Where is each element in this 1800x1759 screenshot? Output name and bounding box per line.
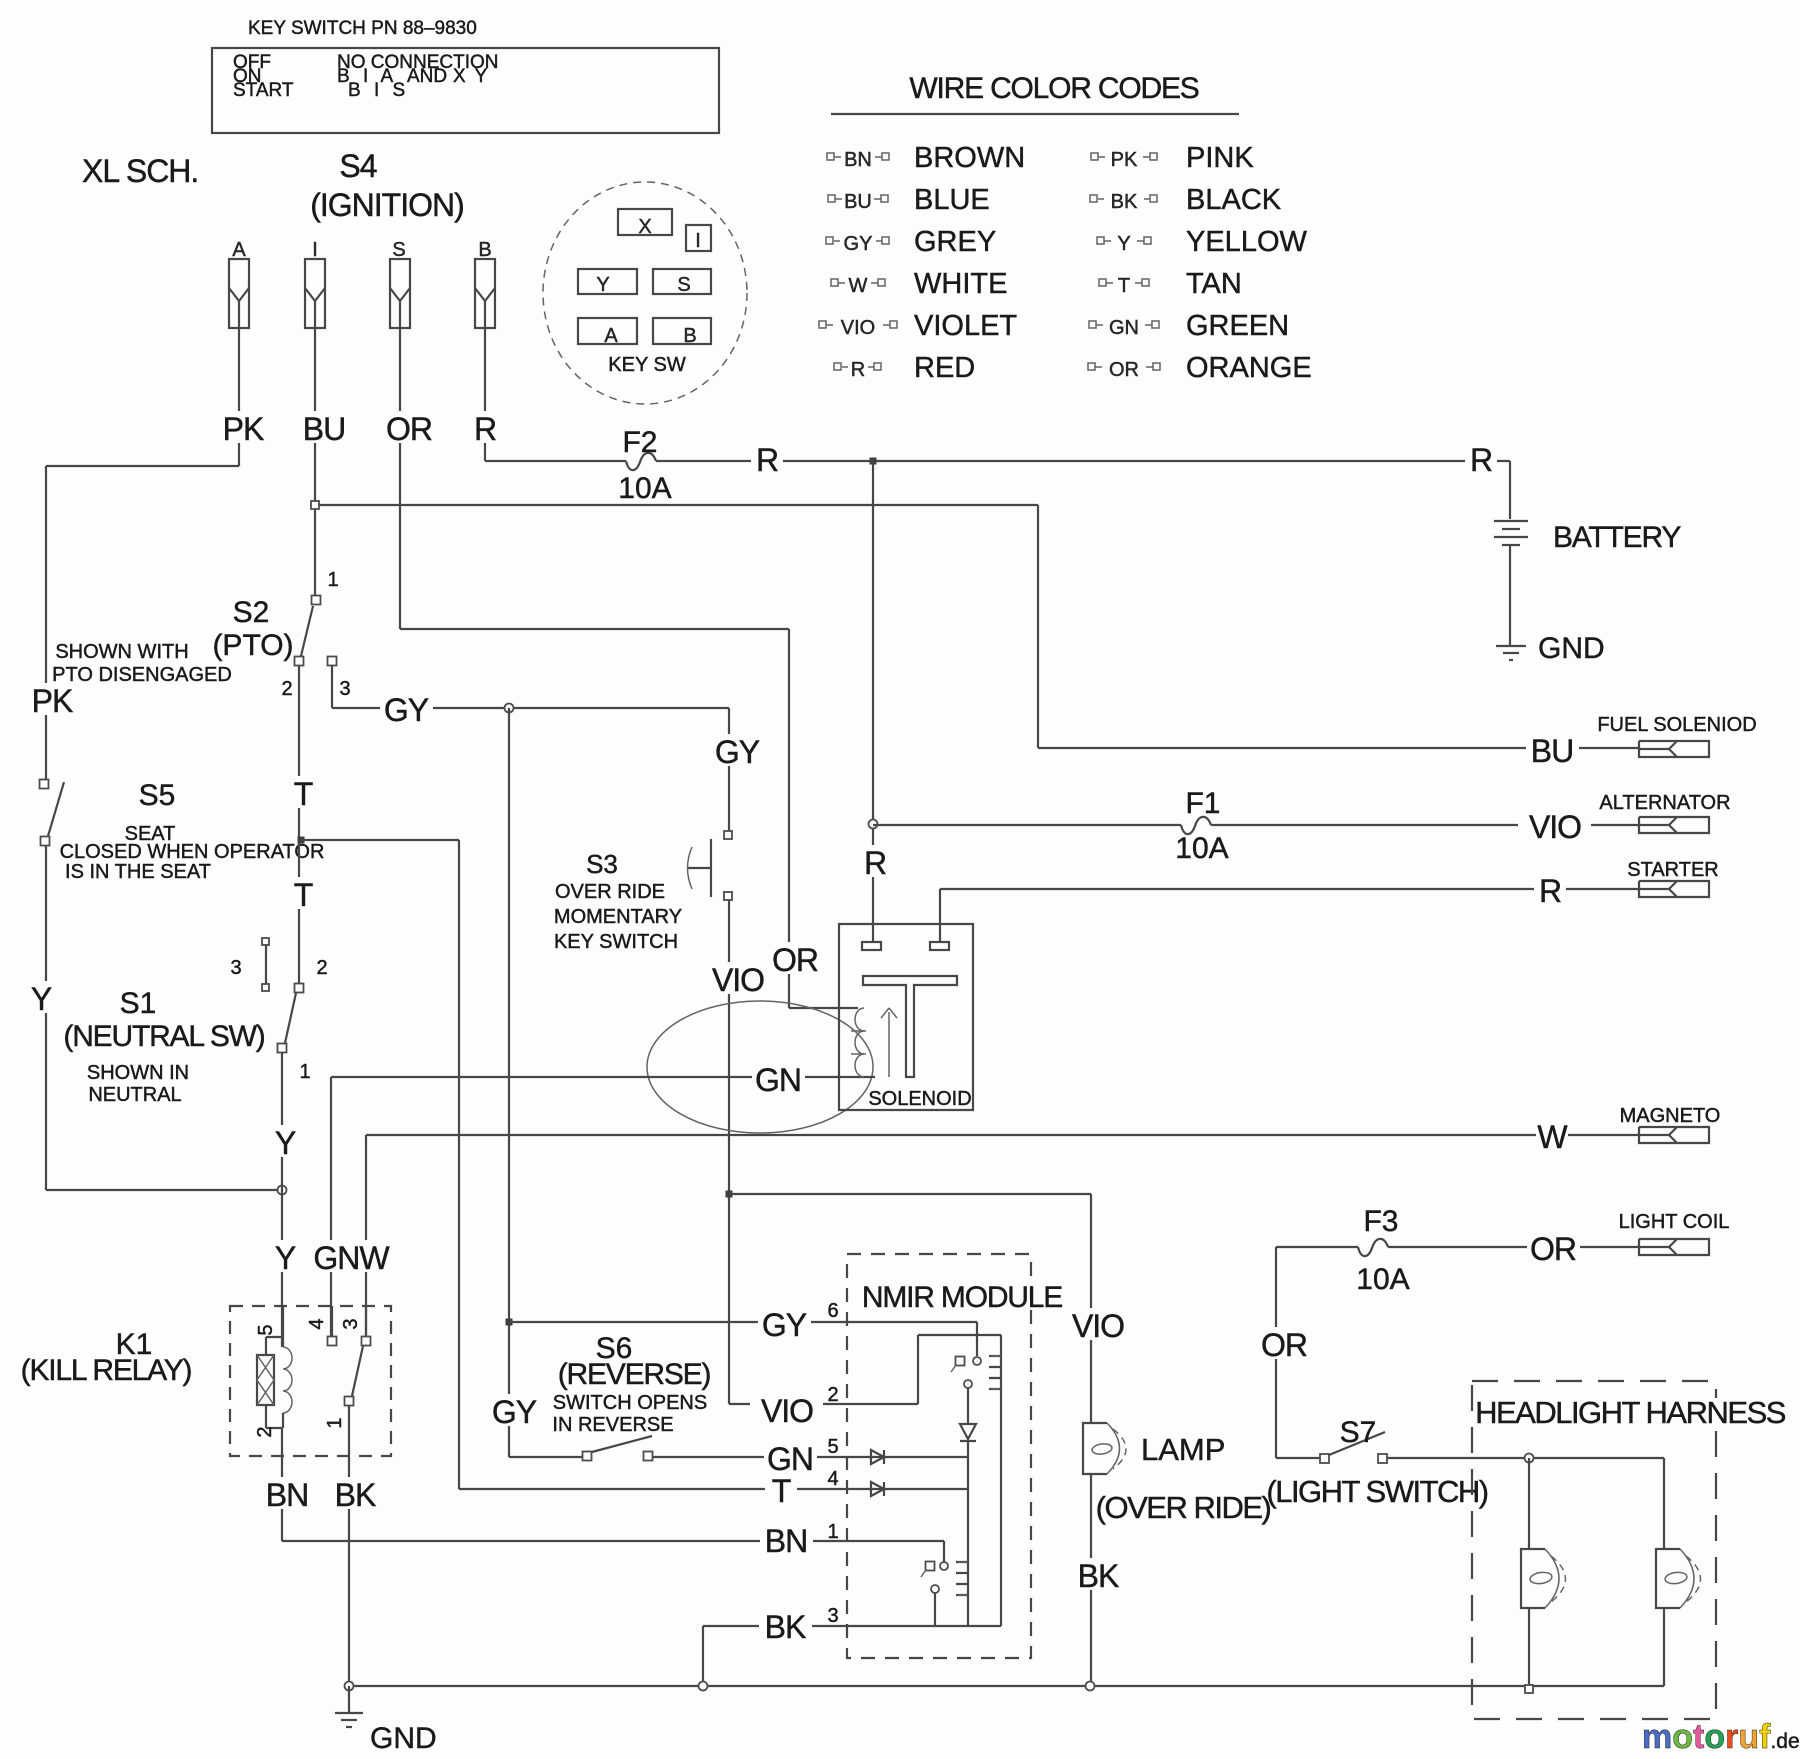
svg-text:ALTERNATOR: ALTERNATOR — [1599, 792, 1730, 814]
svg-text:BN: BN — [266, 1477, 308, 1513]
svg-text:1: 1 — [324, 1417, 346, 1428]
svg-text:VIOLET: VIOLET — [914, 310, 1017, 342]
svg-text:BK: BK — [1078, 1558, 1119, 1594]
key face terminal B — [653, 318, 711, 344]
svg-text:BU: BU — [1531, 733, 1573, 769]
wire R from S4 pin B to fuse F2 — [484, 328, 486, 461]
svg-text:F1: F1 — [1185, 787, 1220, 820]
svg-text:SHOWN WITH: SHOWN WITH — [55, 641, 188, 663]
key face terminal Y — [578, 269, 637, 294]
svg-text:4: 4 — [306, 1318, 328, 1329]
svg-text:OVER RIDE: OVER RIDE — [555, 881, 665, 903]
wire BK from K1 to ground bus — [348, 1406, 350, 1686]
color code T = TAN — [1099, 279, 1106, 286]
svg-text:VIO: VIO — [1529, 809, 1581, 845]
wire PK from S4 pin A — [238, 328, 240, 466]
svg-text:T: T — [294, 877, 313, 913]
color code W = WHITE — [831, 279, 838, 286]
svg-text:Y: Y — [1117, 233, 1130, 255]
key face terminal I — [686, 225, 711, 251]
svg-text:10A: 10A — [618, 472, 671, 505]
svg-text:STARTER: STARTER — [1627, 859, 1719, 881]
key face terminal A — [578, 318, 637, 344]
S4 connector I — [305, 259, 325, 328]
wire label Y (K1) — [269, 1240, 301, 1272]
svg-text:PTO DISENGAGED: PTO DISENGAGED — [52, 664, 232, 686]
switch S7 light switch — [1276, 1457, 1320, 1459]
svg-text:F3: F3 — [1363, 1205, 1398, 1238]
wire label BU (fuel solenoid) — [1526, 733, 1579, 765]
NMIR relay 2 contacts — [926, 1562, 935, 1571]
color code GY = GREY — [826, 237, 833, 244]
wire BU from S4 pin I — [314, 328, 316, 600]
svg-text:2: 2 — [827, 1384, 838, 1406]
wire T from S2 pin 2 down — [298, 666, 300, 983]
svg-text:OR: OR — [1530, 1231, 1576, 1267]
svg-text:PK: PK — [1111, 149, 1138, 171]
svg-text:2: 2 — [254, 1426, 276, 1437]
wire label BK (lamp) — [1072, 1558, 1125, 1590]
key face terminal S — [653, 269, 711, 294]
wire BK NMIR pin 3 to ground bus — [703, 1625, 1001, 1627]
svg-text:BN: BN — [844, 149, 872, 171]
svg-text:T: T — [1118, 275, 1130, 297]
switch S6 reverse switch — [509, 1456, 582, 1458]
wire label R (solenoid) — [859, 845, 891, 877]
wire S7 to headlight harness — [1387, 1457, 1664, 1459]
svg-text:W: W — [849, 275, 868, 297]
svg-text:R: R — [851, 359, 865, 381]
NMIR relay 2 coil — [956, 1562, 968, 1595]
wire label PK (left) — [26, 683, 79, 715]
key face terminal X — [618, 209, 672, 235]
svg-text:3: 3 — [339, 678, 350, 700]
wire label GY (S6) — [488, 1394, 541, 1426]
svg-text:S4: S4 — [339, 148, 376, 184]
svg-text:R: R — [756, 442, 778, 478]
svg-text:2: 2 — [281, 678, 292, 700]
wire GY to S6 — [508, 708, 510, 1457]
svg-text:W: W — [1537, 1119, 1568, 1155]
svg-text:BLACK: BLACK — [1186, 184, 1282, 216]
switch S5 seat switch — [40, 780, 49, 789]
svg-text:OR: OR — [1261, 1327, 1307, 1363]
NMIR relay 1 feed wire — [976, 1322, 978, 1356]
svg-text:GND: GND — [370, 1722, 437, 1755]
svg-text:GY: GY — [384, 692, 429, 728]
headlight lamp 1 — [1521, 1549, 1545, 1608]
wire GY from S2 pin 3 — [331, 666, 333, 708]
wire label PK (top) — [217, 411, 270, 443]
wire T branch to S6/NMIR pin 4 column — [301, 839, 459, 841]
svg-text:WIRE COLOR CODES: WIRE COLOR CODES — [909, 72, 1198, 105]
svg-text:I: I — [695, 230, 701, 252]
fuse F1 — [1181, 817, 1211, 834]
svg-text:R: R — [864, 845, 886, 881]
color code BK = BLACK — [1090, 195, 1097, 202]
wire label BK (K1) — [329, 1477, 382, 1509]
svg-text:Y: Y — [596, 274, 609, 296]
solenoid terminal 1 — [862, 942, 881, 950]
svg-text:BK: BK — [1111, 191, 1138, 213]
svg-text:VIO: VIO — [841, 317, 875, 339]
wire OR from S4 pin S — [399, 328, 401, 629]
svg-text:GND: GND — [1538, 632, 1605, 665]
wire label BK (NMIR) — [759, 1609, 812, 1641]
svg-text:KEY SW: KEY SW — [608, 354, 686, 376]
svg-text:KEY SWITCH: KEY SWITCH — [554, 931, 678, 953]
svg-text:(IGNITION): (IGNITION) — [310, 187, 464, 223]
wire label GY (NMIR) — [758, 1307, 811, 1339]
svg-text:HEADLIGHT HARNESS: HEADLIGHT HARNESS — [1475, 1395, 1786, 1430]
svg-text:1: 1 — [827, 1521, 838, 1543]
wire GNW to K1 pin 3 — [365, 1135, 367, 1341]
svg-text:NEUTRAL: NEUTRAL — [88, 1084, 181, 1106]
svg-text:T: T — [772, 1473, 791, 1509]
svg-text:GY: GY — [762, 1307, 807, 1343]
title underline — [831, 113, 1239, 115]
svg-text:IN REVERSE: IN REVERSE — [552, 1414, 673, 1436]
svg-text:Y: Y — [275, 1240, 296, 1276]
svg-text:BK: BK — [765, 1609, 806, 1645]
svg-text:X: X — [638, 216, 651, 238]
NMIR relay 1 blade to pin2 net — [967, 1388, 969, 1404]
svg-text:IS IN THE SEAT: IS IN THE SEAT — [65, 861, 211, 883]
svg-text:GREY: GREY — [914, 226, 996, 258]
svg-text:A: A — [232, 239, 246, 261]
svg-text:CLOSED WHEN OPERATOR: CLOSED WHEN OPERATOR — [60, 841, 325, 863]
svg-text:SWITCH OPENS: SWITCH OPENS — [553, 1392, 707, 1414]
wire label VIO (S3) — [701, 962, 774, 994]
svg-text:5: 5 — [255, 1324, 277, 1335]
wire label Y (mid) — [269, 1125, 301, 1157]
svg-text:I: I — [312, 239, 318, 261]
svg-text:START: START — [233, 80, 294, 101]
wire label BN (K1) — [261, 1477, 314, 1509]
svg-text:T: T — [294, 776, 313, 812]
wire VIO branch to lamp — [729, 1193, 1091, 1195]
svg-text:R: R — [474, 411, 496, 447]
svg-text:SHOWN IN: SHOWN IN — [87, 1062, 189, 1084]
svg-text:BLUE: BLUE — [914, 184, 990, 216]
NMIR relay 1 coil — [1000, 1335, 1002, 1356]
wire label VIO (alternator) — [1518, 809, 1591, 841]
wire OR to light coil — [1388, 1246, 1639, 1248]
color code PK = PINK — [1091, 153, 1098, 160]
svg-text:X Y: X Y — [453, 66, 489, 87]
key switch truth table box — [212, 48, 719, 133]
wire GN from corner to solenoid coil — [330, 1077, 332, 1341]
headlight lamp 2 — [1656, 1549, 1680, 1608]
wire R down to solenoid/starter node — [872, 461, 874, 942]
NMIR diode D2 (pin 4) — [871, 1482, 884, 1496]
svg-text:S5: S5 — [139, 779, 176, 812]
svg-text:VIO: VIO — [1072, 1308, 1124, 1344]
svg-text:OR: OR — [386, 411, 432, 447]
K1 coil with resistor — [282, 1306, 284, 1347]
svg-text:1: 1 — [327, 569, 338, 591]
svg-text:S1: S1 — [120, 987, 157, 1020]
wire label R (battery) — [1465, 442, 1497, 474]
svg-text:B: B — [478, 239, 491, 261]
wire R fuse to battery — [656, 460, 1510, 462]
wire label OR (solenoid) — [769, 942, 822, 974]
headlight lamp 2 wires — [1663, 1458, 1665, 1549]
svg-text:5: 5 — [827, 1436, 838, 1458]
junction VIO node — [726, 1191, 733, 1198]
wire label VIO (NMIR) — [750, 1393, 823, 1425]
junction GY/NMIR6 node — [506, 1319, 513, 1326]
junction headlight left — [1525, 1454, 1534, 1463]
K1 blade contact 1 — [345, 1397, 354, 1406]
svg-text:OR: OR — [1109, 359, 1139, 381]
wire GN from S6 to NMIR pin 5 — [653, 1456, 968, 1458]
svg-text:WHITE: WHITE — [914, 268, 1007, 300]
relay K1 box — [230, 1306, 391, 1456]
wire Y below S5 — [45, 846, 47, 1190]
NMIR relay 2 feed from pin 1 — [943, 1541, 945, 1562]
svg-text:Y: Y — [31, 981, 52, 1017]
svg-text:S: S — [392, 239, 405, 261]
fuse F3 — [1358, 1239, 1388, 1256]
svg-text:ORANGE: ORANGE — [1186, 352, 1312, 384]
svg-text:S7: S7 — [1340, 1416, 1377, 1449]
NMIR relay 1 contacts — [956, 1357, 965, 1366]
junction R node — [870, 458, 877, 465]
wire label R (S4) — [469, 411, 501, 443]
svg-text:1: 1 — [299, 1061, 310, 1083]
svg-text:PK: PK — [32, 683, 73, 719]
svg-text:3: 3 — [340, 1318, 362, 1329]
svg-text:Y: Y — [275, 1125, 296, 1161]
svg-text:(OVER RIDE): (OVER RIDE) — [1096, 1490, 1271, 1525]
svg-text:MOMENTARY: MOMENTARY — [554, 906, 682, 928]
svg-text:GN: GN — [767, 1441, 813, 1477]
solenoid terminal 2 — [930, 942, 949, 950]
svg-text:BROWN: BROWN — [914, 142, 1025, 174]
junction Y/S1 — [278, 1186, 287, 1195]
K1 contact 3 — [365, 1306, 367, 1336]
wire label W (magneto) — [1536, 1119, 1568, 1151]
ground symbol (battery GND) — [1496, 645, 1526, 647]
NMIR relay 2 blade to pin 3 — [934, 1593, 936, 1626]
svg-text:MAGNETO: MAGNETO — [1620, 1105, 1721, 1127]
svg-text:10A: 10A — [1356, 1263, 1409, 1296]
wire label T (upper) — [287, 776, 319, 808]
solenoid arrow — [881, 1008, 897, 1077]
svg-text:GN: GN — [1109, 317, 1139, 339]
svg-text:4: 4 — [827, 1468, 838, 1490]
svg-text:10A: 10A — [1175, 832, 1228, 865]
svg-text:RED: RED — [914, 352, 975, 384]
svg-text:KEY SWITCH PN 88–9830: KEY SWITCH PN 88–9830 — [248, 18, 477, 39]
switch S2 PTO — [312, 596, 321, 605]
wire T to NMIR pin 4 — [459, 1488, 968, 1490]
ground symbol (main GND) — [348, 1686, 350, 1712]
svg-text:GY: GY — [844, 233, 873, 255]
wire label GN (engine) — [752, 1062, 805, 1094]
wire label BN (NMIR) — [760, 1523, 813, 1555]
svg-text:S2: S2 — [233, 596, 270, 629]
svg-text:BATTERY: BATTERY — [1553, 521, 1681, 554]
NMIR diode D3 (vertical) — [967, 1404, 969, 1424]
S4 connector S — [390, 259, 410, 328]
svg-text:F2: F2 — [622, 426, 657, 459]
NMIR diode D1 (pin 5) — [871, 1450, 884, 1464]
svg-text:PINK: PINK — [1186, 142, 1254, 174]
fuse F2 — [626, 453, 656, 470]
svg-text:2: 2 — [316, 957, 327, 979]
junction ground lamp — [1086, 1682, 1095, 1691]
solenoid coil — [855, 1008, 864, 1077]
svg-text:R: R — [1470, 442, 1492, 478]
solenoid box — [839, 924, 973, 1110]
svg-text:TAN: TAN — [1186, 268, 1242, 300]
switch S1 neutral switch — [262, 938, 269, 945]
switch S3 over ride momentary key switch — [724, 831, 732, 839]
wire label BU — [298, 411, 351, 443]
svg-text:BK: BK — [335, 1477, 376, 1513]
svg-text:S: S — [677, 274, 690, 296]
S4 connector B — [475, 259, 495, 328]
wire OR light circuit — [1275, 1247, 1277, 1458]
label HEADLIGHT HARNESS — [1482, 1398, 1778, 1426]
wire label GY (S2) — [380, 692, 433, 724]
wire label OR (S7) — [1258, 1327, 1311, 1359]
svg-text:(NEUTRAL SW): (NEUTRAL SW) — [63, 1020, 264, 1053]
wire label T (NMIR) — [765, 1473, 797, 1505]
svg-text:6: 6 — [827, 1300, 838, 1322]
junction BU node — [315, 504, 1038, 506]
svg-text:BU: BU — [844, 191, 872, 213]
wire W magneto line — [366, 1134, 1639, 1136]
svg-text:YELLOW: YELLOW — [1186, 226, 1307, 258]
svg-text:GY: GY — [492, 1394, 537, 1430]
junction headlight lamp1 ground — [1525, 1685, 1533, 1693]
headlight lamp 1 wires — [1528, 1458, 1530, 1549]
svg-text:GNW: GNW — [313, 1240, 390, 1276]
svg-text:PK: PK — [223, 411, 264, 447]
junction ground K1 — [345, 1682, 354, 1691]
svg-text:GY: GY — [715, 734, 760, 770]
junction T node — [298, 837, 305, 844]
svg-text:GN: GN — [755, 1062, 801, 1098]
wire BN from K1 to NMIR pin 1 — [281, 1428, 283, 1541]
NMIR coil 1 bottom wire to pin 3 — [1000, 1389, 1002, 1626]
key switch face circle — [543, 182, 747, 404]
svg-text:AND: AND — [407, 66, 447, 87]
wire label GNW — [314, 1240, 387, 1272]
wire VIO from S3 down — [728, 900, 730, 1404]
svg-text:(REVERSE): (REVERSE) — [558, 1358, 711, 1391]
svg-text:BU: BU — [303, 411, 345, 447]
wire BU to fuel solenoid — [1037, 505, 1039, 748]
svg-text:R: R — [1539, 873, 1561, 909]
wire label T (lower) — [287, 877, 319, 909]
svg-text:LAMP: LAMP — [1141, 1432, 1225, 1467]
wire label OR — [383, 411, 436, 443]
NMIR MODULE box — [847, 1254, 1031, 1658]
svg-text:(LIGHT SWITCH): (LIGHT SWITCH) — [1266, 1474, 1487, 1509]
svg-text:B I S: B I S — [348, 80, 409, 101]
color code BN = BROWN — [827, 153, 834, 160]
wire R to starter — [940, 888, 1639, 890]
K1 contact 4 — [331, 1306, 333, 1336]
svg-text:(PTO): (PTO) — [212, 629, 293, 662]
lamp (over ride) — [1083, 1423, 1107, 1474]
wire Y from S1 pin 1 to K1 coil — [281, 1052, 283, 1347]
color code Y = YELLOW — [1097, 237, 1104, 244]
color code VIO = VIOLET — [819, 321, 826, 328]
junction R solenoid node — [869, 820, 878, 829]
battery symbol — [1509, 461, 1511, 519]
NMIR coil 1 top wire — [918, 1334, 1001, 1336]
svg-text:VIO: VIO — [712, 962, 764, 998]
wire VIO to alternator — [1211, 824, 1639, 826]
svg-text:OR: OR — [772, 942, 818, 978]
ground bus wire — [349, 1685, 1664, 1687]
svg-text:NMIR MODULE: NMIR MODULE — [862, 1281, 1062, 1314]
wire label R (starter) — [1534, 873, 1566, 905]
svg-text:(KILL RELAY): (KILL RELAY) — [21, 1354, 192, 1387]
color code R = RED — [834, 363, 841, 370]
svg-text:LIGHT COIL: LIGHT COIL — [1619, 1211, 1730, 1233]
wire R alternator feed to fuse F1 — [873, 824, 1181, 826]
svg-text:SOLENOID: SOLENOID — [868, 1088, 971, 1110]
wire label VIO (lamp) — [1061, 1308, 1134, 1340]
wire GY down to S3 — [728, 708, 730, 835]
HEADLIGHT HARNESS box — [1472, 1381, 1716, 1719]
color code OR = ORANGE — [1088, 363, 1095, 370]
color code GN = GREEN — [1089, 321, 1096, 328]
svg-text:S3: S3 — [586, 849, 618, 879]
S4 connector A — [229, 259, 249, 328]
NMIR net pins 5-4 to coil 2 — [967, 1457, 969, 1562]
wire label Y (left) — [25, 981, 57, 1013]
junction ground NMIR — [699, 1682, 708, 1691]
wire OR to solenoid coil — [400, 628, 789, 630]
junction GY node — [505, 704, 514, 713]
svg-text:XL SCH.: XL SCH. — [82, 153, 198, 189]
solenoid plunger T — [863, 976, 957, 1077]
wire label GN (NMIR) — [764, 1441, 817, 1473]
wire VIO to NMIR pin 2 — [729, 1403, 918, 1405]
svg-text:B: B — [683, 325, 696, 347]
svg-text:FUEL SOLENIOD: FUEL SOLENIOD — [1597, 714, 1756, 736]
svg-text:BN: BN — [765, 1523, 807, 1559]
svg-text:3: 3 — [827, 1605, 838, 1627]
wire label OR (light coil) — [1527, 1231, 1580, 1263]
engine ellipse — [647, 1001, 873, 1133]
svg-text:VIO: VIO — [761, 1393, 813, 1429]
svg-text:A: A — [604, 325, 618, 347]
wire GY NMIR pin 6 line — [509, 1321, 977, 1323]
color code BU = BLUE — [828, 195, 835, 202]
svg-text:3: 3 — [230, 957, 241, 979]
wire label GY (S3) — [711, 734, 764, 766]
wire label R (after F2) — [751, 442, 783, 474]
svg-text:GREEN: GREEN — [1186, 310, 1289, 342]
